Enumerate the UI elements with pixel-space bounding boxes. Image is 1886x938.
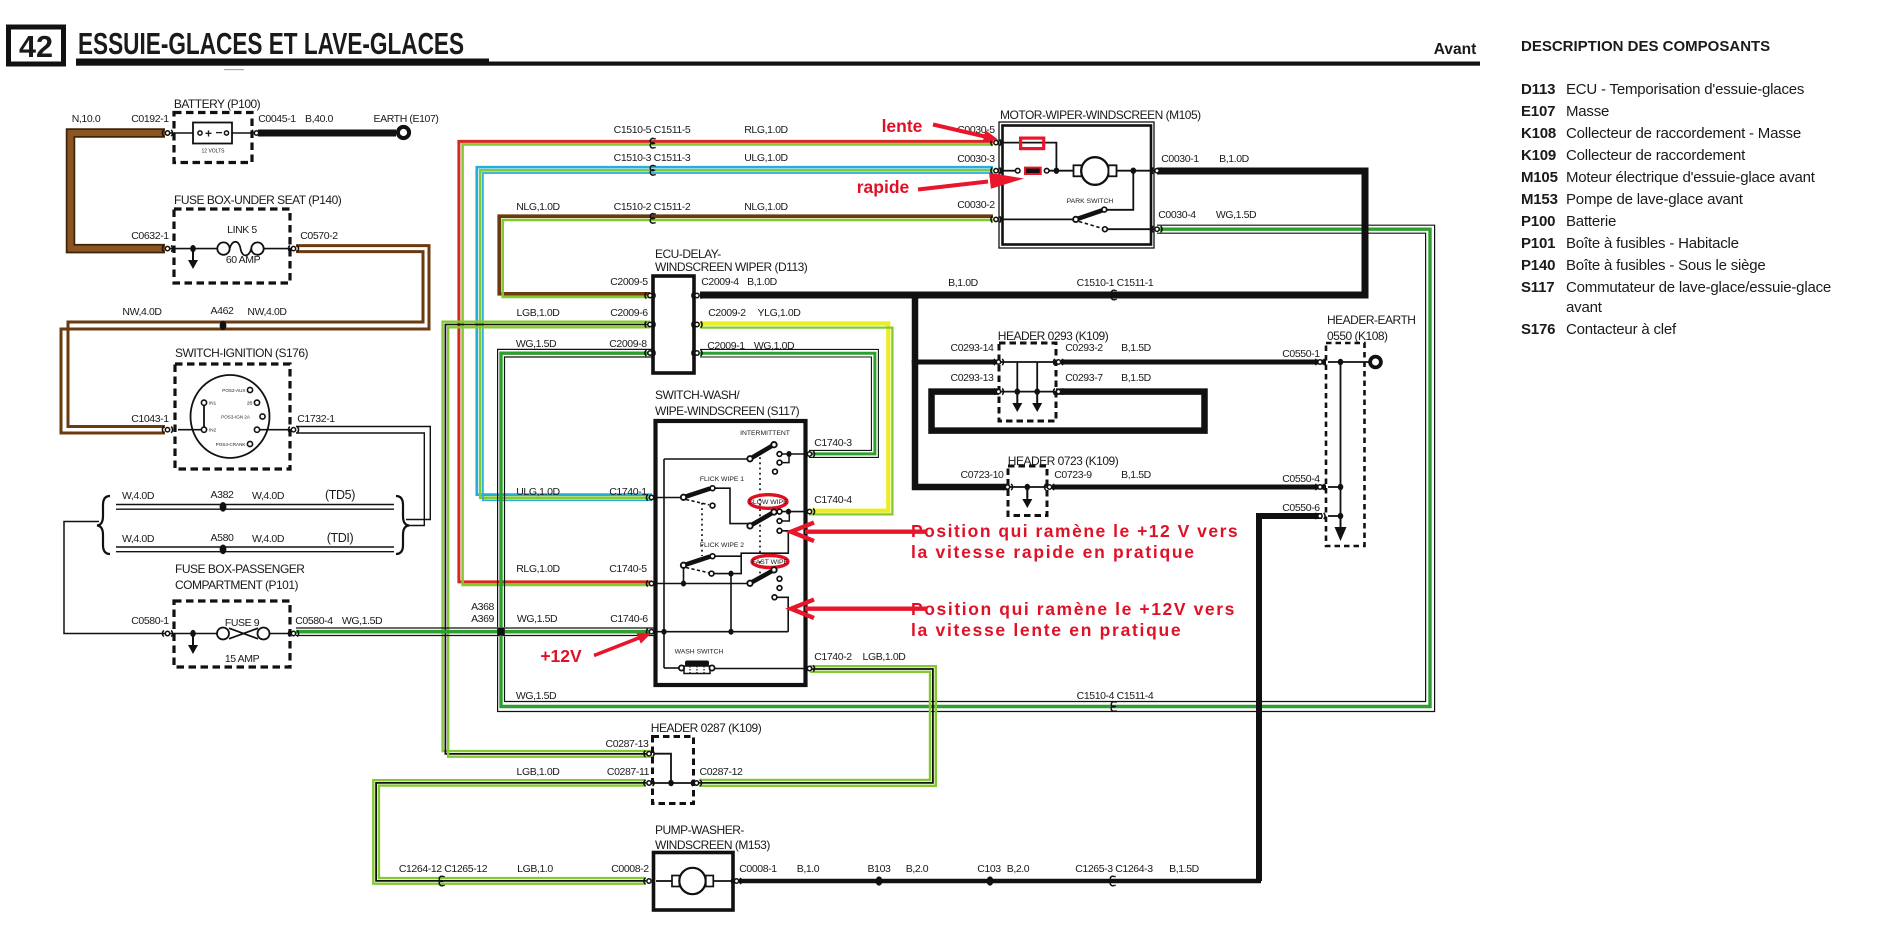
svg-text:WIPE-WINDSCREEN (S117): WIPE-WINDSCREEN (S117) [655, 404, 800, 418]
svg-text:C1510-1 C1511-1: C1510-1 C1511-1 [1077, 277, 1154, 289]
ground arrow K108 [1335, 516, 1347, 541]
pin C2009-6 [645, 321, 655, 327]
labels header 0293 [951, 342, 1152, 384]
svg-text:0550 (K108): 0550 (K108) [1327, 329, 1388, 343]
svg-text:Pompe de lave-glace avant: Pompe de lave-glace avant [1566, 191, 1744, 208]
svg-text:M105: M105 [1521, 169, 1558, 186]
brace right TD5/TDI [396, 496, 409, 554]
svg-text:FUSE 9: FUSE 9 [225, 617, 260, 629]
svg-text:C1740-2: C1740-2 [814, 651, 852, 663]
wire B,1.0D ECU C2009-4 / motor C0030-1 main earth bus [700, 171, 1365, 487]
header 0287 K109 [651, 721, 762, 804]
svg-text:C0293-2: C0293-2 [1065, 342, 1103, 354]
inline connector C1264-12 C1265-12 [439, 876, 444, 886]
pin C0723-10 [1002, 484, 1012, 490]
svg-text:S176: S176 [1521, 321, 1555, 338]
svg-text:W,4.0D: W,4.0D [122, 490, 155, 502]
ignition switch S176 [175, 346, 309, 469]
labels pump earth row [399, 863, 1200, 875]
svg-text:A580: A580 [211, 532, 234, 544]
svg-text:A462: A462 [211, 305, 234, 317]
earth ring terminal E107 [398, 127, 409, 138]
labels bottom WG run [516, 690, 1154, 702]
red annotation +12V [540, 633, 651, 666]
splice C103 [987, 876, 994, 885]
svg-text:ESSUIE-GLACES ET LAVE-GLACES: ESSUIE-GLACES ET LAVE-GLACES [78, 26, 464, 61]
S117 junction dot flick2 pivot on C1740-5 row [681, 581, 686, 587]
pin C0580-1 [162, 630, 172, 636]
svg-text:C0008-2: C0008-2 [611, 863, 649, 875]
svg-text:C0293-13: C0293-13 [951, 372, 994, 384]
svg-text:C2009-2: C2009-2 [708, 307, 746, 319]
page number box 42 [9, 27, 64, 64]
svg-text:C0008-1: C0008-1 [739, 863, 777, 875]
svg-text:B,1.5D: B,1.5D [1121, 342, 1152, 354]
pin C0192-1 [162, 130, 172, 136]
pin C1740-4 [804, 509, 814, 515]
svg-text:C2009-5: C2009-5 [610, 276, 648, 288]
legend list of components [1521, 81, 1831, 338]
svg-text:M153: M153 [1521, 191, 1558, 208]
S117 intermittent switch arm [747, 442, 776, 461]
svg-text:B,1.0: B,1.0 [797, 863, 820, 875]
red arrow to slow wipe loop [791, 523, 927, 542]
pin C0293-13 [993, 389, 1003, 395]
svg-text:C1740-5: C1740-5 [609, 563, 647, 575]
svg-text:12 VOLTS: 12 VOLTS [202, 149, 226, 155]
pin C0008-2 [644, 878, 654, 884]
svg-text:−: − [215, 126, 222, 140]
red annotation box on slow path [1021, 138, 1044, 149]
svg-text:C0723-10: C0723-10 [961, 469, 1004, 481]
labels motor right pins [1158, 153, 1257, 221]
svg-text:C1265-3 C1264-3: C1265-3 C1264-3 [1075, 863, 1153, 875]
svg-text:PUMP-WASHER-: PUMP-WASHER- [655, 823, 744, 837]
svg-text:C1043-1: C1043-1 [131, 413, 169, 425]
labels RLG row [614, 124, 789, 136]
inline connector C1510-1 C1511-1 [1111, 290, 1116, 300]
svg-text:WG,1.0D: WG,1.0D [754, 340, 795, 352]
switch wash/wipe windscreen S117 [655, 388, 806, 685]
svg-text:FAST WIPE: FAST WIPE [752, 559, 789, 566]
ground arrow in P101 (FUSE 9) [188, 635, 198, 654]
svg-text:Collecteur de raccordement: Collecteur de raccordement [1566, 147, 1746, 164]
svg-text:Batterie: Batterie [1566, 213, 1616, 230]
fuse box under seat P140 [170, 193, 342, 283]
pin C0580-4 [288, 630, 298, 636]
svg-text:C1740-3: C1740-3 [814, 437, 852, 449]
svg-text:C0192-1: C0192-1 [131, 113, 169, 125]
svg-text:A369: A369 [471, 613, 494, 625]
pin C2009-8 [645, 350, 655, 356]
svg-text:42: 42 [19, 29, 53, 64]
S117 slow wipe switch arm [747, 509, 776, 528]
splice A382 [220, 502, 227, 512]
inline connector C1510-5 C1511-5 [650, 138, 655, 148]
wire W,4.0 ignition switch to TD5/TDI brace [296, 427, 430, 526]
svg-text:B,1.0D: B,1.0D [747, 276, 778, 288]
svg-text:la vitesse rapide en pratique: la vitesse rapide en pratique [911, 542, 1196, 562]
labels ECU left pins [516, 276, 648, 350]
svg-text:15 AMP: 15 AMP [225, 653, 260, 665]
wire W,4.0D row TDI [116, 547, 394, 552]
svg-text:POS3-IGN 2A: POS3-IGN 2A [221, 414, 251, 419]
red annotation lente [882, 116, 998, 143]
header 0293 K109 [998, 329, 1109, 421]
labels NW row splice A462 [122, 305, 287, 318]
wire B,1.0 / B,2.0 pump C0008-1 to earth bus via B103 C103 C1265-3 C1264-3 [739, 879, 1261, 884]
svg-text:W,4.0D: W,4.0D [122, 533, 155, 545]
S117 slow wipe highlight oval [749, 495, 787, 509]
pin C0287-13 [644, 751, 654, 757]
svg-text:B,1.5D: B,1.5D [1169, 863, 1200, 875]
red annotation rapide [857, 173, 1024, 197]
svg-text:B,2.0: B,2.0 [1007, 863, 1030, 875]
labels header earth K108 [1282, 348, 1320, 514]
svg-text:rapide: rapide [857, 177, 910, 197]
ECU delay windscreen wiper D113 [653, 247, 808, 373]
svg-text:B,1.0D: B,1.0D [1219, 153, 1250, 165]
pin C0550-1 [1315, 359, 1325, 365]
svg-text:(TD5): (TD5) [325, 488, 355, 502]
svg-text:NW,4.0D: NW,4.0D [122, 306, 162, 318]
svg-text:Boîte à fusibles - Sous le siè: Boîte à fusibles - Sous le siège [1566, 257, 1766, 274]
svg-text:INTERMITTENT: INTERMITTENT [740, 430, 790, 437]
svg-text:A382: A382 [211, 489, 234, 501]
svg-text:LGB,1.0: LGB,1.0 [517, 863, 553, 875]
svg-text:YLG,1.0D: YLG,1.0D [758, 307, 802, 319]
wire RLG,1.0D switch C1740-5 to motor C0030-5 [459, 141, 993, 585]
pin C1740-1 [646, 494, 656, 500]
svg-text:Position qui ramène le +12V ve: Position qui ramène le +12V vers [911, 599, 1236, 619]
wire WG,1.0D ECU C2009-1 to switch C1740-3 [700, 349, 878, 457]
pin C0287-12 [691, 780, 701, 786]
inline connector C1510-4 C1511-4 [1111, 702, 1116, 712]
svg-text:HEADER 0293 (K109): HEADER 0293 (K109) [998, 329, 1109, 343]
svg-text:C0293-7: C0293-7 [1065, 372, 1103, 384]
pin C2009-1 [692, 350, 702, 356]
svg-text:WG,1.5D: WG,1.5D [517, 613, 558, 625]
svg-text:MOTOR-WIPER-WINDSCREEN (M105): MOTOR-WIPER-WINDSCREEN (M105) [1000, 108, 1201, 122]
red annotation position rapide text [911, 521, 1239, 562]
wire LGB,1.0 header K109 C0287-11 to pump C0008-2 via C1264-12 C1265-12 [373, 780, 646, 884]
svg-text:avant: avant [1566, 299, 1603, 316]
svg-text:WASH SWITCH: WASH SWITCH [675, 649, 724, 656]
pin C0030-4 [1152, 226, 1162, 232]
svg-text:FLICK WIPE 1: FLICK WIPE 1 [700, 476, 744, 483]
S117 wire C1740-5 row to fast pivot [655, 583, 749, 585]
svg-text:C1264-12 C1265-12: C1264-12 C1265-12 [399, 863, 488, 875]
labels fuse box P140 [131, 224, 338, 266]
labels header 0287 [517, 738, 743, 778]
labels C1740-6 row [517, 613, 648, 625]
wire LGB,1.0D ECU C2009-6 to header K109 C0287-13 [443, 322, 652, 757]
S117 intermittent contacts to pin C1740-3 [773, 451, 807, 474]
svg-text:C0287-13: C0287-13 [606, 738, 649, 750]
S117 mechanical link dotted intermittent-slow-fast [759, 452, 761, 578]
inline connector C1510-2 C1511-2 [650, 214, 655, 224]
S117 wire flick1 to slow pivot [715, 488, 748, 523]
M105 motor armature [1074, 157, 1156, 185]
svg-text:RLG,1.0D: RLG,1.0D [516, 563, 560, 575]
S117 fast wipe contacts [772, 576, 782, 599]
wire NW,4.0D fuse box P140 to ignition switch S176 via splice A462 [61, 246, 429, 433]
svg-text:B,1.0D: B,1.0D [948, 277, 979, 289]
labels TDI row [122, 531, 353, 545]
pin C1740-3 [804, 451, 814, 457]
red arrow to fast wipe loop [791, 600, 927, 619]
svg-text:C0632-1: C0632-1 [131, 230, 169, 242]
page title ESSUIE-GLACES ET LAVE-GLACES [76, 26, 1480, 70]
ground arrow header 0723 [1022, 489, 1032, 508]
svg-text:FUSE BOX-PASSENGER: FUSE BOX-PASSENGER [175, 562, 305, 576]
labels TD5 row [122, 488, 355, 502]
svg-text:C0723-9: C0723-9 [1054, 469, 1092, 481]
wire N,10.0 battery to fuse box P140 [71, 133, 166, 249]
wire W to fuse box P101 [64, 522, 165, 634]
M105 slow brush feed wire [1000, 143, 1059, 174]
svg-text:POS4-CRANK: POS4-CRANK [216, 442, 247, 447]
svg-text:C0045-1: C0045-1 [258, 113, 296, 125]
svg-text:ECU-DELAY-: ECU-DELAY- [655, 247, 721, 261]
svg-text:P101: P101 [1521, 235, 1555, 252]
S117 +12V row C1740-6 [655, 629, 788, 635]
S117 internal feed wire from C1740-6 [664, 459, 749, 668]
wire B,40.0 battery to earth E107 [258, 130, 396, 137]
svg-text:C103: C103 [977, 863, 1001, 875]
svg-text:WINDSCREEN (M153): WINDSCREEN (M153) [655, 838, 770, 852]
labels NLG row [516, 201, 788, 213]
svg-text:2B: 2B [247, 401, 253, 406]
wire NLG,1.0D ECU C2009-5 to motor C0030-2 [499, 216, 993, 297]
S117 node to +12V row [714, 571, 734, 632]
pin C0293-2 [1053, 359, 1063, 365]
svg-text:HEADER 0287 (K109): HEADER 0287 (K109) [651, 721, 762, 735]
pin C1732-1 [288, 427, 298, 433]
wire WG,1.5D vertical to ECU C2009-8 [498, 349, 652, 630]
svg-text:DESCRIPTION DES COMPOSANTS: DESCRIPTION DES COMPOSANTS [1521, 38, 1770, 55]
pin C0632-1 [162, 246, 172, 252]
svg-text:POS2-AUX: POS2-AUX [222, 388, 245, 393]
wire B,1.5D header 0723 C0723-9 to header-earth C0550-4 [1052, 485, 1350, 490]
splice A368 A369 [497, 628, 505, 636]
svg-text:WG,1.5D: WG,1.5D [342, 615, 383, 627]
pin C1740-2 [804, 665, 814, 671]
svg-text:la vitesse lente en pratique: la vitesse lente en pratique [911, 620, 1182, 640]
pin C0008-1 [731, 878, 741, 884]
svg-text:PARK SWITCH: PARK SWITCH [1067, 198, 1114, 205]
svg-text:C0030-2: C0030-2 [957, 199, 995, 211]
svg-text:C0580-1: C0580-1 [131, 615, 169, 627]
svg-text:LGB,1.0D: LGB,1.0D [517, 307, 561, 319]
red annotation position lente text [911, 599, 1236, 640]
svg-text:N,10.0: N,10.0 [72, 113, 101, 125]
svg-text:IN2: IN2 [209, 428, 217, 433]
wire WG,1.5D fuse P101 C0580-4 to switch C1740-6 [296, 628, 654, 636]
M105 park switch feed [1107, 171, 1133, 210]
svg-text:ULG,1.0D: ULG,1.0D [744, 152, 788, 164]
svg-text:C0030-1: C0030-1 [1161, 153, 1199, 165]
svg-text:ULG,1.0D: ULG,1.0D [516, 486, 560, 498]
S117 slow wipe contacts to pin C1740-4 [777, 509, 807, 534]
pin C0723-9 [1044, 484, 1054, 490]
inline connector C1510-3 C1511-3 [650, 166, 655, 176]
svg-text:C1740-4: C1740-4 [814, 494, 852, 506]
wire WG,1.5D long run to motor C0030-4 via C1510-4 C1511-4 [498, 225, 1435, 711]
svg-text:COMPARTMENT (P101): COMPARTMENT (P101) [175, 578, 299, 592]
pin C0030-1 [1152, 168, 1162, 174]
svg-text:LINK 5: LINK 5 [227, 224, 257, 236]
svg-text:C0550-6: C0550-6 [1282, 502, 1320, 514]
svg-text:SWITCH-WASH/: SWITCH-WASH/ [655, 388, 740, 402]
labels S117 right pins [814, 437, 906, 663]
pin C0045-1 [251, 130, 261, 136]
svg-text:B,40.0: B,40.0 [305, 113, 334, 125]
pin C0030-2 [991, 216, 1001, 222]
svg-text:C1510-4 C1511-4: C1510-4 C1511-4 [1077, 690, 1154, 702]
svg-text:C0570-2: C0570-2 [300, 230, 338, 242]
svg-text:S117: S117 [1521, 279, 1554, 296]
labels ULG row [614, 152, 789, 164]
svg-text:C0580-4: C0580-4 [295, 615, 333, 627]
svg-text:WINDSCREEN WIPER (D113): WINDSCREEN WIPER (D113) [655, 260, 808, 274]
splice A580 [220, 545, 227, 555]
svg-text:B103: B103 [868, 863, 891, 875]
inline connector C1265-3 C1264-3 [1110, 876, 1115, 886]
svg-text:Contacteur à clef: Contacteur à clef [1566, 321, 1677, 338]
S117 fast wipe highlight oval [752, 556, 788, 568]
pin C0293-7 [1053, 389, 1063, 395]
pin C0030-5 [991, 140, 1001, 146]
labels S117 left pins [516, 486, 647, 575]
labels ignition switch pins [131, 413, 335, 425]
svg-text:C2009-1: C2009-1 [707, 340, 745, 352]
ground arrow header 0293 left [1012, 393, 1022, 412]
svg-text:Boîte à fusibles - Habitacle: Boîte à fusibles - Habitacle [1566, 235, 1739, 252]
pin C0550-6 [1315, 513, 1325, 519]
svg-text:C0030-4: C0030-4 [1158, 209, 1196, 221]
svg-text:W,4.0D: W,4.0D [252, 490, 285, 502]
brace left TD5/TDI [97, 496, 110, 554]
svg-text:P140: P140 [1521, 257, 1555, 274]
earth ring terminal K108 [1370, 357, 1381, 368]
svg-text:60 AMP: 60 AMP [226, 254, 261, 266]
pump washer windscreen M153 [654, 823, 771, 910]
svg-text:C0550-1: C0550-1 [1282, 348, 1320, 360]
pin C2009-4 [692, 292, 702, 298]
svg-text:Position qui ramène le +12 V v: Position qui ramène le +12 V vers [911, 521, 1239, 541]
svg-text:WG,1.5D: WG,1.5D [1216, 209, 1257, 221]
svg-text:Commutateur de lave-glace/essu: Commutateur de lave-glace/essuie-glace [1566, 279, 1831, 296]
labels B bus [948, 277, 1154, 289]
S117 flick wipe 1 arm [655, 486, 715, 508]
svg-text:WG,1.5D: WG,1.5D [516, 338, 557, 350]
svg-text:P100: P100 [1521, 213, 1555, 230]
svg-text:C1740-1: C1740-1 [609, 486, 647, 498]
svg-text:K108: K108 [1521, 125, 1556, 142]
svg-text:FLICK WIPE 2: FLICK WIPE 2 [700, 542, 744, 549]
svg-text:C1740-6: C1740-6 [610, 613, 648, 625]
labels motor left pins [957, 124, 995, 211]
M105 fast brush feed with resistor [1000, 168, 1074, 174]
svg-text:W,4.0D: W,4.0D [252, 533, 285, 545]
svg-text:C1732-1: C1732-1 [297, 413, 335, 425]
labels ECU right pins [701, 276, 801, 352]
pin C2009-5 [645, 292, 655, 298]
svg-text:C2009-4: C2009-4 [701, 276, 739, 288]
svg-text:HEADER-EARTH: HEADER-EARTH [1327, 313, 1415, 327]
pin C0030-3 [991, 168, 1001, 174]
wire W,4.0D row TD5 [116, 505, 394, 510]
S117 wire fast third contact to +12V row [777, 597, 788, 631]
wire B,1.5D loop at header 0293 C0293-13 / C0293-7 [932, 392, 1205, 431]
svg-text:Avant: Avant [1434, 41, 1477, 58]
wire YLG,1.0D ECU C2009-2 to switch C1740-4 [700, 324, 892, 515]
ground arrow in P140 (LINK 5) [188, 250, 198, 269]
battery P100 [170, 97, 261, 163]
svg-text:RLG,1.0D: RLG,1.0D [744, 124, 788, 136]
pin C2009-2 [692, 321, 702, 327]
svg-text:K109: K109 [1521, 147, 1556, 164]
svg-text:C0287-12: C0287-12 [700, 766, 743, 778]
pin C0550-4 [1315, 484, 1325, 490]
svg-text:C1510-5 C1511-5: C1510-5 C1511-5 [614, 124, 691, 136]
svg-text:NLG,1.0D: NLG,1.0D [516, 201, 560, 213]
svg-text:(TDI): (TDI) [327, 531, 354, 545]
svg-text:FUSE BOX-UNDER SEAT (P140): FUSE BOX-UNDER SEAT (P140) [174, 193, 342, 207]
svg-text:IN1: IN1 [209, 401, 217, 406]
svg-text:SWITCH-IGNITION (S176): SWITCH-IGNITION (S176) [175, 346, 309, 360]
svg-text:ECU - Temporisation d'essuie-g: ECU - Temporisation d'essuie-glaces [1566, 81, 1804, 98]
splice A462 [220, 321, 227, 330]
svg-text:+: + [205, 127, 212, 141]
svg-text:C1510-3 C1511-3: C1510-3 C1511-3 [614, 152, 691, 164]
svg-text:WG,1.5D: WG,1.5D [516, 690, 557, 702]
svg-text:Collecteur de raccordement - M: Collecteur de raccordement - Masse [1566, 125, 1801, 142]
svg-text:B,2.0: B,2.0 [906, 863, 929, 875]
pin C0570-2 [288, 246, 298, 252]
pin C1043-1 [162, 427, 172, 433]
svg-text:BATTERY (P100): BATTERY (P100) [174, 97, 261, 111]
labels fuse box P101 [131, 615, 383, 665]
labels splice A368 A369 [471, 601, 494, 625]
svg-text:B,1.5D: B,1.5D [1121, 372, 1152, 384]
svg-text:C2009-8: C2009-8 [609, 338, 647, 350]
ground arrow header 0293 right [1032, 393, 1042, 412]
svg-text:C0030-3: C0030-3 [957, 153, 995, 165]
svg-text:LGB,1.0D: LGB,1.0D [863, 651, 907, 663]
S117 fast wipe switch arm [747, 567, 776, 586]
svg-text:A368: A368 [471, 601, 494, 613]
S117 flick wipe 2 arm [681, 554, 741, 584]
splice B103 [876, 876, 883, 885]
svg-text:LGB,1.0D: LGB,1.0D [517, 766, 561, 778]
svg-text:D113: D113 [1521, 81, 1555, 98]
S117 mechanical link dotted flick1-flick2 [701, 503, 703, 556]
motor wiper windscreen M105 [999, 108, 1201, 248]
svg-text:Masse: Masse [1566, 103, 1609, 120]
svg-text:C0287-11: C0287-11 [607, 766, 650, 778]
wire B,1.5D header 0293 C0293-2 to header-earth C0550-1 [1061, 360, 1350, 365]
svg-text:C1510-2 C1511-2: C1510-2 C1511-2 [614, 201, 691, 213]
svg-text:NW,4.0D: NW,4.0D [247, 306, 287, 318]
svg-text:C0293-14: C0293-14 [951, 342, 994, 354]
wire labels battery row [72, 113, 439, 125]
labels header 0723 [961, 469, 1152, 481]
S117 wire slow third contact loop to +12V node [734, 531, 789, 574]
pin C0287-11 [644, 780, 654, 786]
wire LGB,1.0D switch C1740-2 to header K109 C0287-12 [699, 666, 936, 786]
